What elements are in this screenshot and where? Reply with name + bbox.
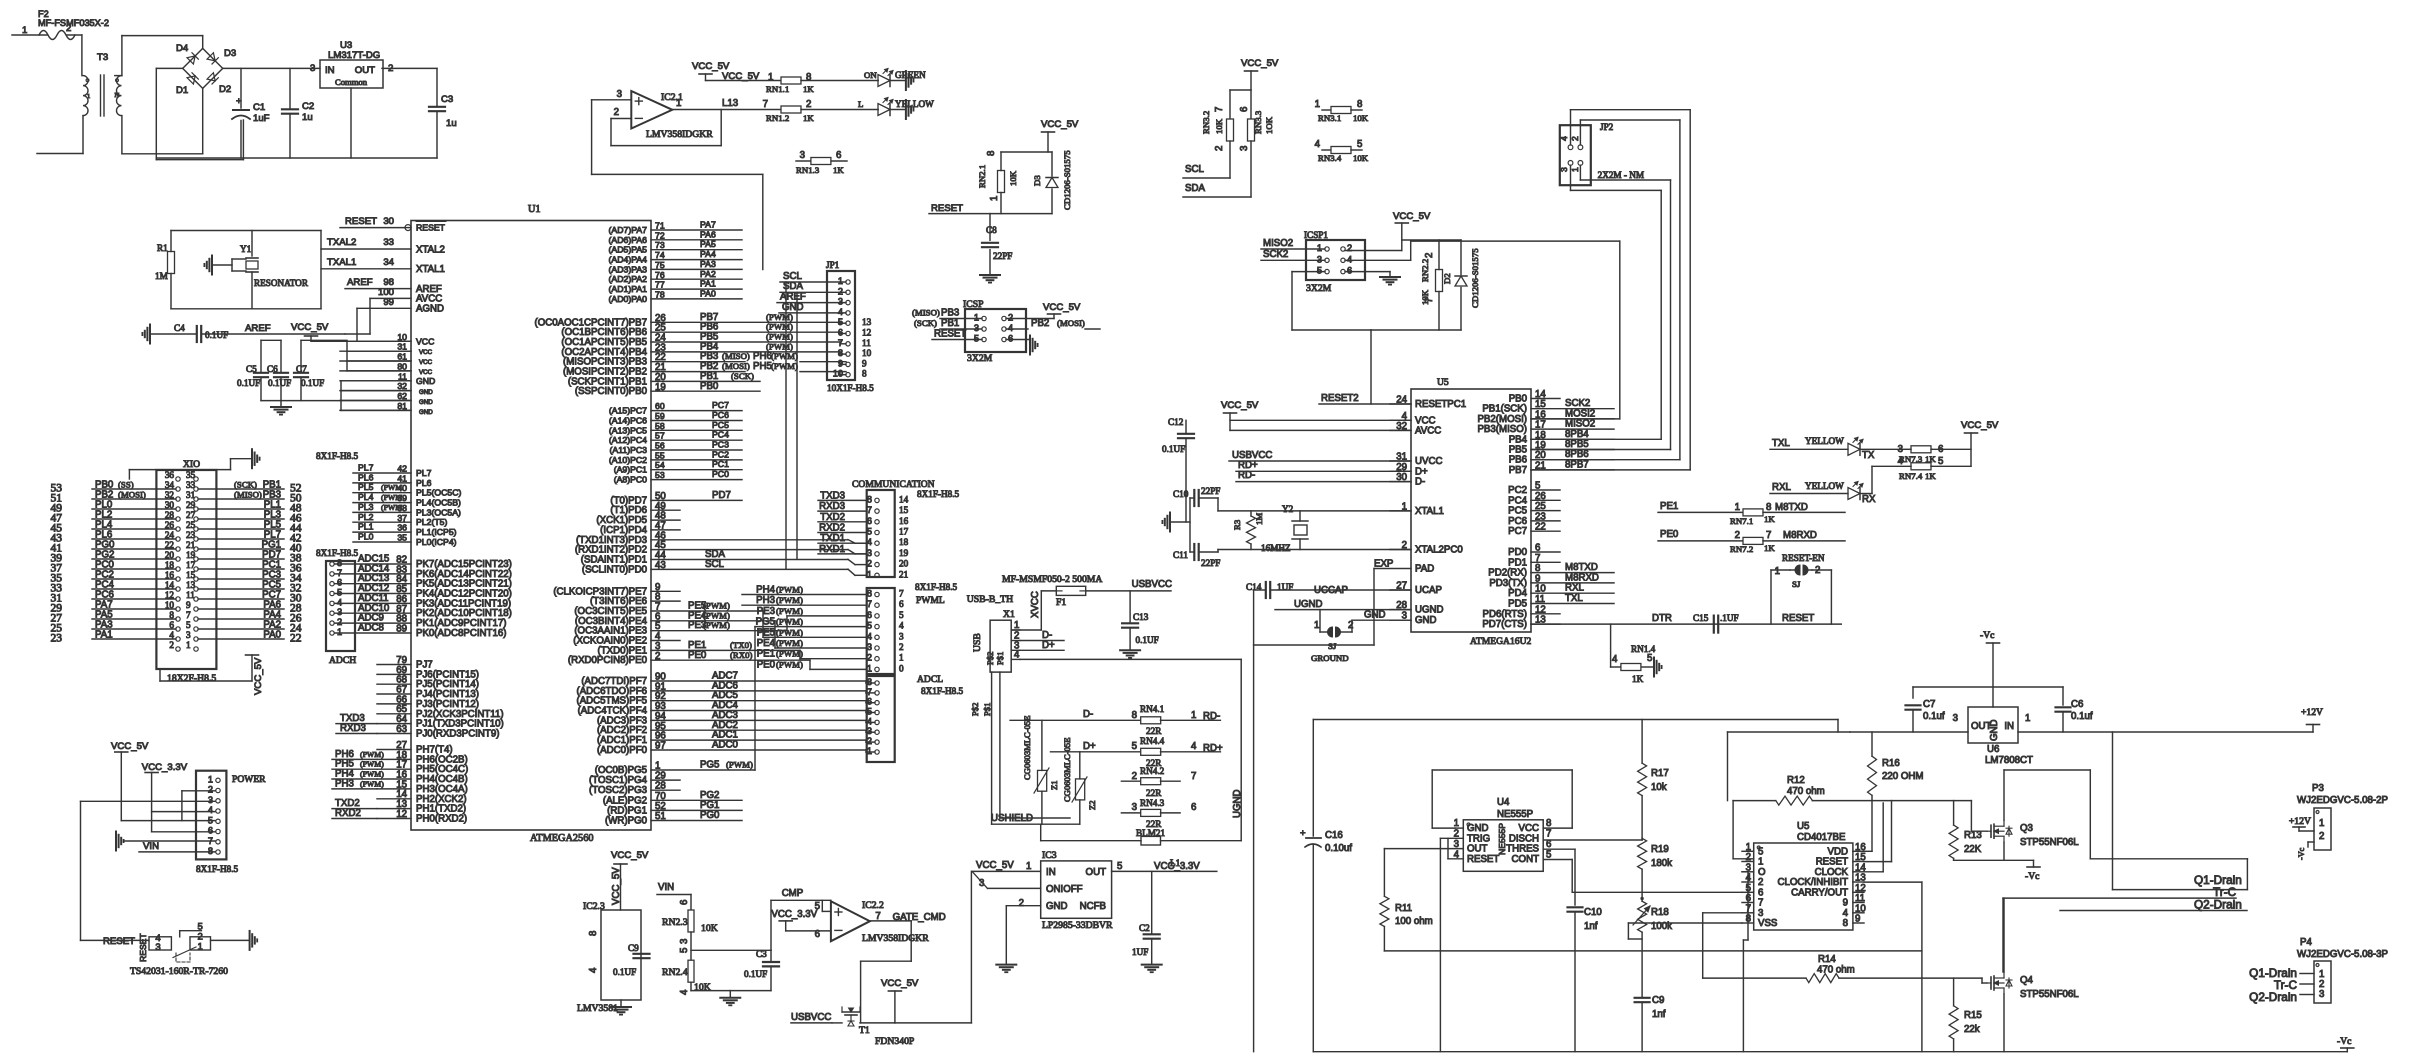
svg-text:35: 35 (186, 470, 196, 480)
svg-text:35: 35 (397, 533, 407, 543)
U5 pin GND (1390, 619, 1411, 621)
U5 pin PD4 (1531, 592, 1614, 594)
svg-text:3: 3 (337, 607, 342, 617)
U1 pin (A8)PC0 (651, 479, 742, 481)
svg-text:PL5: PL5 (358, 482, 374, 492)
U1 pin PL4(OC5B) (353, 502, 411, 504)
wire USB gnd (1020, 658, 1241, 660)
svg-text:NCFB: NCFB (1080, 901, 1106, 912)
U5 pin PC4 (1531, 499, 1560, 501)
svg-text:(MOSI): (MOSI) (1057, 318, 1085, 328)
svg-text:62: 62 (397, 391, 407, 401)
svg-text:81: 81 (397, 401, 407, 411)
svg-text:1nf: 1nf (1652, 1009, 1666, 1020)
capacitor C3 0.1UF (744, 949, 779, 991)
U1 pin (ICP1)PD4 (651, 529, 680, 531)
svg-text:17: 17 (899, 527, 909, 537)
connector JP1 10X1F-H8.5 (826, 260, 874, 393)
svg-text:1OK: 1OK (1264, 116, 1274, 134)
svg-text:8X1F-H8.5: 8X1F-H8.5 (196, 864, 239, 874)
svg-text:10: 10 (397, 332, 407, 342)
svg-text:1: 1 (867, 569, 872, 579)
svg-text:2: 2 (1570, 136, 1580, 141)
svg-text:IN: IN (325, 65, 335, 76)
svg-text:PL2: PL2 (358, 512, 374, 522)
svg-text:D-: D- (1415, 477, 1425, 488)
resistor R14 470 ohm (1703, 954, 1987, 983)
svg-text:ATMEGA2560: ATMEGA2560 (530, 833, 594, 844)
svg-text:15: 15 (186, 570, 196, 580)
svg-text:6: 6 (836, 150, 841, 161)
wire 8PB7 route (1570, 110, 1572, 145)
svg-text:RD-: RD- (1238, 470, 1255, 481)
svg-text:7: 7 (337, 568, 342, 578)
ground (1189, 498, 1191, 552)
svg-text:PA5: PA5 (700, 239, 716, 249)
wire (1871, 466, 1873, 493)
wire PB2 (MOSI) (1006, 328, 1028, 330)
svg-text:11: 11 (398, 371, 407, 381)
svg-text:LM7808CT: LM7808CT (1985, 755, 2033, 766)
svg-text:R17: R17 (1651, 768, 1669, 779)
svg-text:TXAL2: TXAL2 (327, 237, 356, 248)
U5 CD4017 pin 3 (1742, 871, 1754, 873)
svg-text:51: 51 (655, 811, 666, 822)
svg-text:RXD3: RXD3 (819, 501, 845, 512)
svg-text:23: 23 (51, 633, 63, 645)
svg-text:0.1UF: 0.1UF (301, 378, 324, 388)
U1 pin (MOSIPCINT2)PB2 (651, 371, 745, 373)
svg-text:(PWM): (PWM) (776, 638, 803, 648)
svg-text:1: 1 (768, 72, 773, 83)
svg-text:23: 23 (186, 530, 196, 540)
svg-text:2: 2 (899, 642, 904, 652)
svg-text:55: 55 (655, 450, 665, 460)
svg-text:6: 6 (899, 599, 904, 609)
svg-text:2: 2 (867, 559, 872, 569)
resistor RN4.3 22R (1121, 798, 1196, 829)
U1 pin (SCLINT0)PD0 (651, 568, 848, 570)
U1 pin (XCK1)PD5 (651, 519, 680, 521)
svg-text:RESET-EN: RESET-EN (1782, 553, 1825, 563)
svg-text:GND: GND (419, 409, 433, 416)
svg-text:(RXD0PCIN8)PE0: (RXD0PCIN8)PE0 (568, 655, 648, 666)
U1 pin (TOSC2)PG3 (651, 789, 680, 791)
wire (156, 157, 437, 159)
wire AGND (357, 307, 411, 309)
U1 pin (RXD0PCIN8)PE0 (651, 659, 810, 661)
svg-text:RESET: RESET (934, 329, 966, 340)
U5 pin PD1 (1531, 561, 1560, 563)
svg-text:C2: C2 (302, 101, 314, 112)
svg-text:MF-MSMF050-2 500MA: MF-MSMF050-2 500MA (1002, 574, 1102, 585)
svg-text:8X1F-H8.5: 8X1F-H8.5 (917, 489, 960, 499)
U5 pin PAD (1374, 568, 1411, 570)
svg-text:D+: D+ (1083, 741, 1096, 752)
svg-text:6: 6 (867, 697, 872, 707)
svg-text:8PB7: 8PB7 (1565, 459, 1589, 470)
svg-text:VCC_5V: VCC_5V (291, 322, 329, 333)
svg-text:PL1(ICP5): PL1(ICP5) (416, 527, 457, 537)
U1 pin (A9)PC1 (651, 469, 742, 471)
svg-text:RN1.3: RN1.3 (796, 165, 820, 175)
svg-text:Common: Common (335, 77, 368, 87)
U1 pin PH5(OC4C) (377, 768, 411, 770)
svg-text:4: 4 (679, 989, 690, 995)
svg-text:2: 2 (867, 653, 872, 663)
wire (12, 34, 47, 36)
svg-text:STP55NF06L: STP55NF06L (2020, 837, 2079, 848)
svg-text:ADC8: ADC8 (358, 623, 384, 634)
U5 CD4017 pin 8 (1742, 922, 1754, 924)
svg-text:9: 9 (862, 358, 867, 368)
U1 pin (ADC4TCK)PF4 (651, 710, 866, 712)
svg-text:4: 4 (337, 597, 342, 607)
svg-text:1M: 1M (155, 271, 168, 281)
svg-text:(MISO): (MISO) (234, 490, 262, 500)
svg-text:(AD2)PA2: (AD2)PA2 (609, 274, 648, 284)
svg-text:(PWM): (PWM) (776, 606, 803, 616)
svg-text:PE4: PE4 (757, 638, 776, 649)
ferrite bead L1 BLM21 (1041, 824, 1242, 868)
wire 555 CONT (1543, 859, 1572, 861)
ground (1142, 964, 1162, 966)
svg-text:1K: 1K (803, 84, 814, 94)
U1 pin PJ4(PCINT13) (377, 693, 411, 695)
voltage regulator U3 (310, 40, 393, 158)
svg-text:180k: 180k (1651, 858, 1672, 869)
wire Q4 drain (2003, 898, 2005, 972)
svg-text:(PWM): (PWM) (703, 620, 730, 630)
svg-text:C2: C2 (1139, 923, 1150, 933)
svg-text:PWML: PWML (916, 595, 945, 606)
svg-text:RESET: RESET (1782, 613, 1814, 624)
wire (129, 469, 230, 471)
resistor RN7.4 1K (1872, 456, 1943, 481)
resistor RN3.2 10K (1201, 107, 1234, 151)
U1 pin RESET (405, 227, 411, 229)
svg-text:6: 6 (1938, 444, 1943, 455)
U1 pin (OC3BINT4)PE4 (651, 620, 775, 622)
svg-text:PA6: PA6 (700, 229, 716, 239)
U5 CD4017 pin 13 CLOCK/INHIBIT (1853, 881, 1864, 883)
svg-text:(SCK): (SCK) (914, 318, 937, 328)
U1 pin PJ7 (377, 664, 411, 666)
svg-text:TX: TX (1862, 450, 1875, 461)
transistor T1 FDN340P (832, 1007, 914, 1047)
U1 pin (OC3AAIN1)PE3 (651, 630, 787, 632)
svg-text:0.1UF: 0.1UF (1136, 635, 1159, 645)
svg-text:8X1F-H8.5: 8X1F-H8.5 (915, 582, 958, 592)
svg-text:1: 1 (1315, 99, 1320, 110)
capacitor C15 .1UF (1713, 616, 1715, 633)
svg-text:GND: GND (1989, 719, 2000, 741)
svg-text:6: 6 (1191, 802, 1196, 813)
svg-text:33: 33 (186, 480, 196, 490)
U1 pin (RXD1INT2)PD2 (651, 549, 848, 551)
svg-text:PG5: PG5 (700, 760, 719, 771)
wire RESET from ICSP1 pin5 (1292, 271, 1325, 273)
wire VCC pins (311, 340, 411, 342)
svg-text:3: 3 (867, 642, 872, 652)
op-amp IC2.1 LMV358IDGKR (631, 91, 713, 140)
capacitor C10 22PF (1173, 486, 1220, 511)
svg-text:0.1uf: 0.1uf (1923, 711, 1945, 722)
U5 pin PD2(RX) (1531, 572, 1614, 574)
wire XTAL2 (321, 248, 411, 250)
wire (382, 67, 437, 69)
U1 pin (OC2APCINT4)PB4 (651, 351, 840, 353)
svg-text:RN4.2: RN4.2 (1140, 766, 1165, 776)
ground (1006, 339, 1030, 341)
svg-text:ADCL: ADCL (917, 674, 943, 685)
svg-text:VCC_5V: VCC_5V (1241, 58, 1279, 69)
svg-text:RN3.2: RN3.2 (1201, 111, 1211, 134)
svg-text:PA0: PA0 (263, 630, 281, 641)
svg-text:75: 75 (655, 260, 665, 270)
U1 pin (OC3CINT5)PE5 (651, 610, 763, 612)
svg-text:19: 19 (655, 382, 666, 393)
svg-text:1K: 1K (1764, 543, 1775, 553)
svg-text:99: 99 (383, 297, 394, 308)
svg-text:DTR: DTR (1652, 613, 1672, 624)
svg-text:Q2-Drain: Q2-Drain (2194, 898, 2242, 912)
U1 pin PK6(ADC14PCINT22) (355, 573, 411, 575)
U1 pin PJ6(PCINT15) (377, 673, 411, 675)
svg-text:PL0(ICP4): PL0(ICP4) (416, 537, 457, 547)
power -Vc (2033, 860, 2035, 867)
svg-text:VCC_5V: VCC_5V (881, 978, 919, 989)
diode D3 CD1206-S01575 (1032, 150, 1072, 210)
svg-text:8: 8 (1546, 818, 1551, 829)
capacitor C9 1nf (1635, 995, 1666, 1052)
svg-text:5: 5 (1647, 653, 1652, 664)
svg-text:6: 6 (867, 516, 872, 526)
wire feedback (610, 119, 612, 146)
U1 pin PH3(OC4A) (377, 788, 411, 790)
wire (182, 790, 215, 792)
svg-text:4: 4 (588, 967, 599, 973)
svg-text:41: 41 (397, 473, 407, 483)
wire RESET to POWER pin3 (81, 800, 216, 802)
U1 VCC pins (340, 340, 411, 342)
svg-text:USB: USB (972, 633, 983, 652)
svg-text:PC7: PC7 (1508, 526, 1527, 537)
svg-text:0.1uf: 0.1uf (2071, 711, 2093, 722)
svg-text:RESET: RESET (416, 223, 446, 233)
svg-text:VCC_5V: VCC_5V (976, 860, 1014, 871)
svg-text:PL0: PL0 (358, 532, 374, 542)
svg-text:10X1F-H8.5: 10X1F-H8.5 (827, 383, 874, 393)
svg-text:(PWM): (PWM) (766, 322, 793, 332)
diode D2 CD1206-S01575 (1442, 248, 1480, 308)
svg-text:D4: D4 (176, 43, 189, 54)
U1 pin (ADC6TDO)PF6 (651, 690, 866, 692)
connector COMMUNICATION 8X1F-H8.5 (818, 479, 960, 579)
svg-text:RN4.4: RN4.4 (1140, 736, 1165, 746)
svg-text:UCAP: UCAP (1415, 585, 1442, 596)
svg-text:RXD3: RXD3 (340, 723, 366, 734)
wire (121, 116, 123, 154)
U1 pin (TOSC1)PG4 (651, 779, 680, 781)
ground (149, 325, 151, 344)
U1 pin (SSPCINT0)PB0 (651, 390, 760, 392)
pushbutton RESET TS42031-160R-TR-7260 (81, 922, 229, 978)
wire D- D+ stubs (1020, 640, 1064, 642)
svg-text:7: 7 (867, 599, 872, 609)
svg-text:U5: U5 (1437, 377, 1449, 388)
connector ICSP1 3X2M (1304, 230, 1365, 294)
svg-text:8: 8 (208, 846, 213, 856)
svg-text:C13: C13 (1133, 612, 1149, 622)
resistor R16 220 OHM (1868, 732, 1924, 801)
svg-text:RESET: RESET (931, 203, 963, 214)
ground (1653, 658, 1655, 677)
svg-text:PH0(RXD2): PH0(RXD2) (416, 814, 467, 825)
U1 pin (OC1APCINT5)PB5 (651, 341, 840, 343)
svg-text:4: 4 (1315, 139, 1321, 150)
svg-text:5: 5 (337, 588, 342, 598)
crystal Y2 16MHZ (1261, 504, 1308, 553)
svg-text:RESET: RESET (345, 216, 377, 227)
svg-text:56: 56 (655, 441, 665, 451)
wire RESET (340, 227, 405, 229)
svg-text:3: 3 (899, 631, 904, 641)
svg-text:RESETPC1: RESETPC1 (1415, 399, 1466, 410)
svg-text:3: 3 (1953, 713, 1958, 724)
svg-text:8X1F-H8.5: 8X1F-H8.5 (921, 686, 964, 696)
svg-text:10: 10 (862, 348, 872, 358)
svg-text:FDN340P: FDN340P (875, 1036, 914, 1047)
svg-text:+12V: +12V (2289, 816, 2311, 827)
connector P3 WJ2EDGVC-5.08-2P (2289, 783, 2388, 860)
svg-text:7: 7 (1191, 771, 1196, 782)
capacitor C7 (294, 340, 324, 400)
svg-text:C10: C10 (1173, 489, 1189, 499)
svg-text:3: 3 (617, 89, 622, 100)
ground (905, 71, 907, 90)
wire (690, 932, 692, 961)
svg-text:YELLOW: YELLOW (1805, 436, 1844, 446)
svg-text:(SSPCINT0)PB0: (SSPCINT0)PB0 (575, 386, 648, 397)
U5 pin PB7 (1531, 469, 1614, 471)
wire 8PB5 route (1579, 165, 1581, 180)
svg-text:(MISO): (MISO) (912, 308, 940, 318)
wire GATE_CMD (870, 920, 911, 922)
resistor RN3.1 10K (1315, 99, 1369, 123)
svg-text:7: 7 (186, 610, 191, 620)
svg-text:22: 22 (1535, 522, 1546, 533)
U5 pin PB2(MOSI) (1531, 418, 1614, 420)
U1 pin PK2(ADC10PCINT18) (355, 612, 411, 614)
svg-text:13: 13 (862, 317, 872, 327)
connector P4 WJ2EDGVC-5.08-3P (2249, 937, 2388, 1004)
svg-text:GROUND: GROUND (1311, 653, 1349, 663)
svg-text:10K: 10K (1353, 113, 1369, 123)
svg-text:(A9)PC1: (A9)PC1 (614, 465, 647, 475)
svg-text:MISO2: MISO2 (1263, 238, 1293, 249)
wire VDD (1864, 850, 1872, 852)
svg-text:RN1.1: RN1.1 (766, 84, 789, 94)
svg-text:PL4: PL4 (358, 492, 374, 502)
svg-text:2: 2 (66, 23, 71, 34)
svg-text:1: 1 (1775, 566, 1780, 577)
svg-text:U1: U1 (528, 204, 541, 215)
resistor R19 180k (1638, 838, 1673, 901)
capacitor C14 1UF (1246, 582, 1411, 598)
svg-text:4: 4 (867, 716, 872, 726)
capacitor C9 0.1UF (613, 943, 650, 977)
svg-text:VCC_5V: VCC_5V (1393, 211, 1431, 222)
svg-text:PJ0(RXD3PCINT9): PJ0(RXD3PCINT9) (416, 729, 499, 740)
svg-text:16MHZ: 16MHZ (1261, 543, 1291, 553)
U5 pin UVCC (1390, 460, 1411, 462)
svg-text:10K: 10K (694, 982, 711, 993)
svg-text:22: 22 (290, 633, 302, 645)
U1 pin (AD6)PA6 (651, 239, 742, 241)
resistor R17 10k (1638, 720, 1669, 839)
svg-text:22K: 22K (1964, 844, 1982, 855)
svg-text:1nf: 1nf (1584, 921, 1598, 932)
U1 pin (SDAINT1)PD1 (651, 559, 848, 561)
resistor RN4.4 22R (1051, 736, 1223, 768)
svg-text:RESET2: RESET2 (1321, 393, 1359, 404)
svg-text:RN7.1: RN7.1 (1730, 516, 1753, 526)
svg-text:R3: R3 (1232, 519, 1242, 530)
svg-text:4: 4 (1612, 654, 1618, 665)
svg-text:PC4: PC4 (712, 430, 729, 440)
connector X1 USB-B_TH (967, 594, 1020, 716)
svg-text:PB1: PB1 (941, 318, 959, 329)
capacitor C6 (267, 340, 291, 400)
svg-text:VCC_3.3V: VCC_3.3V (1154, 861, 1200, 872)
connector ICSP 3X2M (963, 299, 1026, 364)
svg-text:XTAL2: XTAL2 (416, 245, 445, 256)
svg-text:PK0(ADC8PCINT16): PK0(ADC8PCINT16) (416, 628, 506, 639)
svg-text:7: 7 (899, 589, 904, 599)
svg-text:3: 3 (974, 323, 979, 333)
svg-text:3: 3 (800, 150, 805, 161)
LED GREEN (878, 69, 926, 87)
svg-text:THRES: THRES (1506, 844, 1539, 855)
U5 pin D- (1390, 481, 1411, 483)
diode bridge D1 D2 D3 D4 (176, 43, 236, 96)
svg-text:1u: 1u (302, 112, 313, 123)
svg-text:PA1: PA1 (700, 279, 716, 289)
svg-text:1: 1 (1735, 502, 1740, 513)
svg-text:89: 89 (396, 624, 407, 635)
svg-text:C7: C7 (1923, 699, 1935, 710)
regulator IC3 LP2985-33DBVR (1041, 850, 1113, 931)
capacitor C11 22PF (1173, 544, 1220, 568)
U1 pin (XCKOAIN0)PE2 (651, 640, 680, 642)
svg-text:(PWM): (PWM) (776, 585, 803, 595)
svg-text:PE0: PE0 (688, 650, 707, 661)
svg-text:4: 4 (1559, 136, 1569, 141)
wire (801, 109, 878, 111)
svg-text:22PF: 22PF (993, 251, 1012, 261)
svg-text:UGND: UGND (1294, 599, 1323, 610)
svg-text:7: 7 (763, 99, 768, 110)
svg-text:C9: C9 (1652, 995, 1664, 1006)
svg-text:0: 0 (899, 663, 904, 673)
svg-text:PE0: PE0 (1660, 529, 1679, 540)
svg-text:59: 59 (655, 411, 665, 421)
svg-text:8: 8 (1132, 710, 1137, 721)
svg-text:17: 17 (186, 560, 196, 570)
svg-text:12: 12 (396, 809, 407, 820)
svg-text:R19: R19 (1651, 844, 1669, 855)
